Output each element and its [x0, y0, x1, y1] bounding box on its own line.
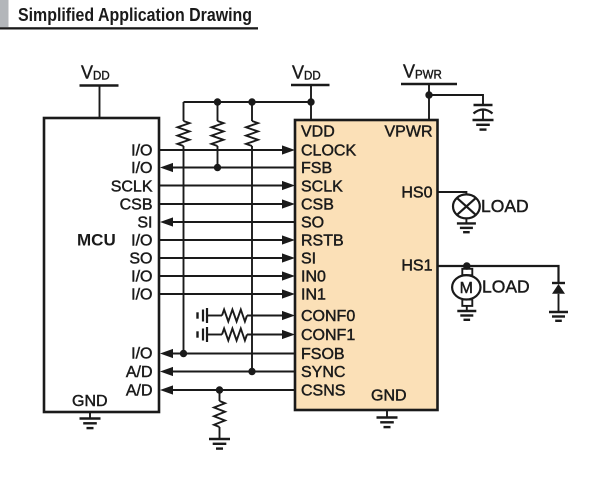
- svg-text:CSB: CSB: [120, 197, 153, 214]
- svg-text:I/O: I/O: [131, 287, 152, 304]
- svg-text:I/O: I/O: [131, 346, 152, 363]
- wire IN0: [159, 275, 283, 277]
- node HS1/motor junction: [463, 262, 471, 270]
- wire lamp to ground: [465, 218, 467, 223]
- ground (below lamp): [457, 223, 476, 232]
- svg-text:SO: SO: [301, 215, 324, 232]
- ground (below IC): [377, 410, 398, 427]
- wire SO (IC SO to MCU SI): [171, 221, 295, 223]
- ground (below motor): [457, 311, 476, 320]
- svg-text:A/D: A/D: [126, 383, 153, 400]
- lamp LOAD (HS0): [453, 194, 480, 218]
- node bus/R2: [214, 98, 221, 105]
- resistor R5 (CONF0 series): [207, 310, 247, 322]
- wire CLOCK (MCU I/O to IC CLOCK): [159, 149, 283, 151]
- wire HS0 to lamp: [438, 192, 467, 195]
- title bar gray block: [0, 0, 9, 27]
- power VDD (center, above driver IC): [291, 63, 330, 86]
- svg-text:I/O: I/O: [131, 233, 152, 250]
- wire VPWR to IC VPWR pin: [428, 84, 430, 120]
- svg-text:HS0: HS0: [401, 185, 432, 202]
- capacitor C1 (CONF0): [198, 308, 208, 323]
- wire IN1: [159, 293, 283, 295]
- wire pull-up bus: [184, 101, 312, 103]
- resistor R1 (pull-up FSOB): [178, 102, 190, 354]
- wire VDD to IC VDD pin: [310, 85, 312, 120]
- svg-text:M: M: [460, 280, 473, 297]
- svg-text:IN1: IN1: [301, 287, 326, 304]
- power VDD (left, above MCU): [80, 63, 119, 86]
- svg-text:FSOB: FSOB: [301, 346, 345, 363]
- svg-text:VDD: VDD: [301, 124, 335, 141]
- wire CSB: [159, 203, 283, 205]
- svg-text:MCU: MCU: [77, 231, 116, 250]
- ground (below R4): [209, 439, 230, 449]
- svg-text:LOAD: LOAD: [481, 196, 529, 216]
- wire SI (MCU SO to IC SI): [159, 257, 283, 259]
- svg-text:CONF0: CONF0: [301, 308, 355, 325]
- wire CSNS (IC CSNS to MCU A/D): [171, 389, 295, 391]
- svg-text:FSB: FSB: [301, 160, 332, 177]
- ground (below D1): [549, 312, 568, 321]
- node VPWR junction: [425, 91, 432, 98]
- wire FSB (IC FSB to MCU I/O): [171, 167, 295, 169]
- node R2/FSB junction: [214, 164, 221, 171]
- svg-text:SO: SO: [129, 251, 152, 268]
- wire CONF0: [247, 315, 283, 317]
- svg-text:SI: SI: [137, 215, 152, 232]
- svg-text:CSB: CSB: [301, 197, 334, 214]
- svg-text:A/D: A/D: [126, 364, 153, 381]
- svg-text:RSTB: RSTB: [301, 233, 344, 250]
- wire VDD to MCU top: [99, 86, 101, 119]
- svg-text:GND: GND: [72, 393, 108, 410]
- MCU block U1: [44, 118, 159, 412]
- resistor R6 (CONF1 series): [207, 329, 247, 341]
- wire VPWR to C3: [429, 95, 483, 104]
- svg-text:I/O: I/O: [131, 143, 152, 160]
- node R3/SYNC junction: [248, 368, 255, 375]
- svg-text:CSNS: CSNS: [301, 383, 345, 400]
- svg-text:HS1: HS1: [401, 258, 432, 275]
- diode D1 (freewheel): [552, 283, 565, 312]
- resistor R2 (pull-up FSB): [212, 102, 224, 168]
- wire FSOB (IC FSOB to MCU I/O): [171, 353, 295, 355]
- svg-text:LOAD: LOAD: [482, 277, 530, 297]
- wire HS1 to motor and diode: [438, 266, 559, 283]
- svg-text:I/O: I/O: [131, 269, 152, 286]
- svg-text:SI: SI: [301, 251, 316, 268]
- svg-text:GND: GND: [371, 388, 407, 405]
- svg-text:CONF1: CONF1: [301, 327, 355, 344]
- capacitor C2 (CONF1): [198, 327, 208, 342]
- svg-text:IN0: IN0: [301, 269, 326, 286]
- wire SCLK: [159, 185, 283, 187]
- resistor R4 (CSNS sense): [214, 390, 225, 439]
- capacitor C3 (VPWR bypass): [474, 105, 493, 120]
- driver IC block U2: [295, 120, 438, 410]
- ground (below MCU): [80, 412, 101, 428]
- wire CONF1: [247, 334, 283, 336]
- svg-text:Simplified Application Drawing: Simplified Application Drawing: [18, 5, 252, 25]
- node R1/FSOB junction: [180, 350, 187, 357]
- svg-text:SCLK: SCLK: [111, 179, 153, 196]
- svg-text:SYNC: SYNC: [301, 364, 345, 381]
- node VDD bus junction: [307, 98, 314, 105]
- ground (below C3): [473, 120, 494, 130]
- node bus/R3: [248, 98, 255, 105]
- title underline: [0, 27, 258, 29]
- power VPWR: [401, 62, 457, 85]
- svg-text:CLOCK: CLOCK: [301, 143, 356, 160]
- svg-text:VPWR: VPWR: [385, 124, 433, 141]
- svg-text:I/O: I/O: [131, 160, 152, 177]
- motor LOAD (HS1): [452, 266, 480, 311]
- resistor R3 (pull-up SYNC): [246, 102, 258, 372]
- wire RSTB: [159, 239, 283, 241]
- svg-text:SCLK: SCLK: [301, 179, 343, 196]
- node CSNS/R4 junction: [216, 386, 223, 393]
- wire SYNC (IC SYNC to MCU A/D): [171, 371, 295, 373]
